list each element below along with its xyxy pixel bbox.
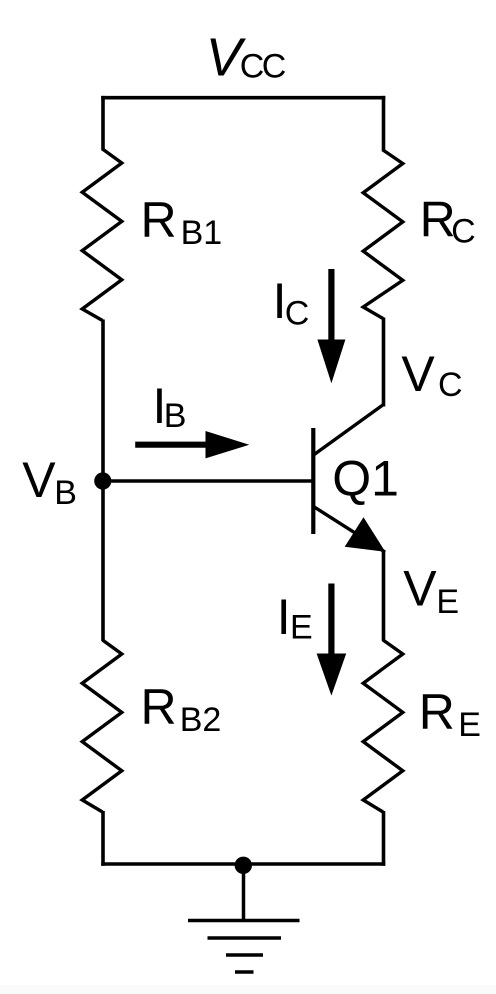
svg-text:V: V (403, 561, 437, 617)
svg-text:E: E (436, 583, 459, 621)
svg-text:CC: CC (240, 47, 286, 85)
label VB (22, 452, 77, 512)
svg-text:B1: B1 (181, 214, 223, 252)
label RB1 (141, 192, 223, 252)
transistor Q1 emitter arrowhead (345, 517, 386, 552)
svg-text:B2: B2 (180, 701, 222, 739)
svg-text:V: V (401, 346, 435, 402)
resistor RB2 (82, 640, 122, 812)
wire: right rail lower (RE to ground rail) (382, 811, 386, 866)
current arrow IE (317, 584, 347, 696)
current arrow IC (317, 269, 345, 383)
svg-text:C: C (451, 212, 476, 250)
wire: bottom ground rail (101, 862, 385, 866)
svg-text:V: V (22, 452, 56, 508)
svg-text:B: B (54, 474, 77, 512)
label RE (419, 684, 481, 744)
resistor RE (363, 640, 403, 812)
wire: left rail lower (RB2 to ground rail) (101, 811, 105, 866)
label RB2 (141, 679, 222, 739)
svg-text:C: C (285, 295, 310, 333)
svg-text:E: E (290, 608, 313, 646)
wire: top rail VCC (101, 96, 385, 100)
transistor Q1 emitter lead (314, 507, 386, 553)
svg-text:B: B (164, 397, 187, 435)
wire: collector vertical (RC to transistor) (382, 318, 386, 407)
current arrow IB (135, 431, 249, 458)
wire: emitter vertical (Q1 to RE) (382, 551, 386, 641)
resistor RC (363, 150, 403, 319)
label RC (420, 192, 476, 251)
wire: left rail middle (RB1 to RB2) (101, 320, 105, 642)
svg-text:E: E (458, 706, 481, 744)
wire: base wire (VB node to Q1 base) (101, 479, 312, 483)
svg-text:R: R (141, 192, 177, 248)
ground symbol (188, 864, 300, 972)
svg-text:R: R (419, 684, 455, 740)
label IC (273, 273, 310, 333)
wire: left rail upper (VCC to RB1) (101, 96, 105, 151)
svg-text:Q1: Q1 (332, 450, 399, 506)
label VC (401, 346, 462, 404)
label IE (277, 589, 313, 646)
wire: right rail upper (VCC to RC) (382, 96, 386, 152)
transistor Q1 collector lead (314, 405, 384, 456)
svg-text:I: I (277, 589, 291, 645)
bottom page edge tint (0, 985, 496, 994)
svg-text:C: C (438, 366, 463, 404)
node VB (junction dot) (94, 472, 111, 489)
svg-text:R: R (141, 679, 177, 735)
node: ground junction dot (235, 857, 252, 874)
label VE (403, 561, 459, 622)
transistor Q1 base bar (311, 428, 315, 534)
label IB (153, 378, 187, 435)
resistor RB1 (82, 149, 122, 321)
net label VCC (206, 28, 286, 88)
